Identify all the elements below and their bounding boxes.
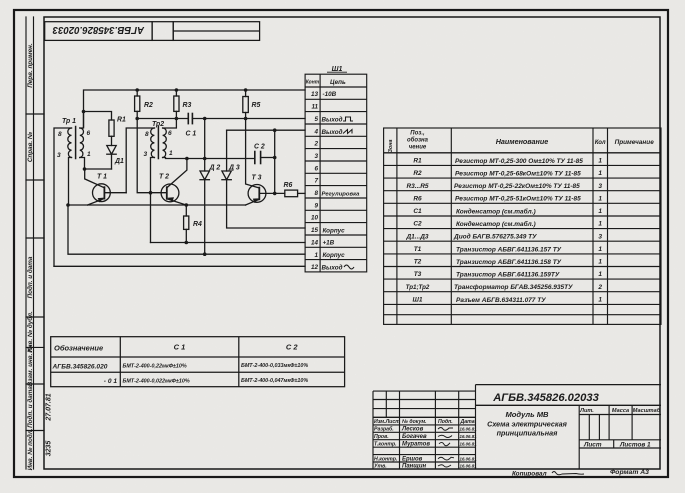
node junction R2 bottom / pin5 rail xyxy=(135,117,139,121)
wire: R4 bottom lead xyxy=(185,229,187,242)
connector Sh1 table xyxy=(305,74,367,272)
parts list table xyxy=(384,128,661,324)
wire: R5 top lead xyxy=(245,90,247,97)
resistor R2 xyxy=(135,96,140,111)
wire: Tr1 pin8 to output rail pin 12 xyxy=(54,128,72,266)
resistor R1 xyxy=(109,120,114,136)
node junction R4 bottom xyxy=(185,241,189,245)
wire: +1V rail to pin 14 xyxy=(151,242,306,244)
Tr2 core xyxy=(157,127,159,159)
wire: Tr2 pin1 to C2 rail xyxy=(163,158,254,159)
node junction emitter rail left xyxy=(66,203,70,207)
node junction pin4 rail / C2 branch xyxy=(273,128,277,132)
wire: Tr2 pin6 up to R3 bottom xyxy=(163,119,177,129)
wire: Tr1 pin3 down to emitter rail xyxy=(69,158,72,206)
Tr1 primary winding (pins 8-3) xyxy=(68,128,72,157)
wire: D1 cathode down to collector node line xyxy=(111,154,113,169)
sawtooth symbol pin 4 xyxy=(343,130,352,134)
resistor R3 xyxy=(174,96,179,111)
node junction at Tr1 pin6 branch xyxy=(82,110,86,114)
T3 emitter lead with arrow xyxy=(246,200,259,205)
capacitor selection table xyxy=(51,337,345,387)
T2 emitter lead with arrow xyxy=(168,199,187,205)
sine symbol pin 12 xyxy=(344,265,354,269)
capacitor C1 xyxy=(188,114,192,124)
node junction T2 collector xyxy=(185,157,189,161)
left margin box dividers xyxy=(26,113,44,115)
kopiroval signature xyxy=(552,472,584,475)
T1 collector lead xyxy=(85,169,105,188)
diode D1 xyxy=(107,146,116,155)
header Lit xyxy=(579,407,661,449)
diode D2 xyxy=(200,119,209,255)
wire: C2 branch down to T3 base xyxy=(274,130,276,193)
Tr1 secondary winding (pins 6-1) xyxy=(80,128,84,157)
signatures squiggles xyxy=(438,428,454,468)
Tr2 secondary winding (pins 6-1) xyxy=(163,128,167,157)
wire: R6 to connector pin 8 xyxy=(298,192,305,194)
wire: output rail to pin 12 xyxy=(54,265,305,267)
node junction T3 base xyxy=(273,192,277,196)
node junction R2 top xyxy=(135,88,139,92)
wire: Tr1 pin6 up xyxy=(80,112,84,129)
node junction D2 anode rail xyxy=(203,157,207,161)
wire: ground rail to pin 1 xyxy=(68,205,305,254)
Tr2 primary winding (pins 8-3) xyxy=(151,128,155,157)
T1 emitter lead with arrow xyxy=(88,199,104,205)
resistor R5 xyxy=(243,97,249,113)
wire: R3 bottom lead xyxy=(175,111,177,118)
diode D3 xyxy=(222,130,305,228)
transistor T1 xyxy=(85,169,127,205)
T2 collector lead xyxy=(167,159,187,188)
wire: T1 base up to Tr2 pin 8 xyxy=(126,128,154,193)
wire: R2 bottom to T2 base xyxy=(137,111,167,192)
resistor R4 xyxy=(184,216,189,229)
parts table headers xyxy=(388,131,654,153)
wire: -10V top rail to pin 13 xyxy=(84,90,306,127)
node junction C2 / pin4 branch xyxy=(273,156,277,160)
node junction D2 cathode / ground xyxy=(203,252,207,256)
node junction R5 top xyxy=(244,88,248,92)
Tr1 core xyxy=(75,127,77,159)
title block frame xyxy=(373,385,661,469)
resistor R6 xyxy=(285,190,298,197)
wire: pin 5 output rail through C1 xyxy=(137,118,188,120)
wire: pin 4 rail xyxy=(227,129,305,131)
node junction T3 collector rail xyxy=(244,117,248,121)
node junction R3 top xyxy=(175,88,179,92)
capacitor C2 xyxy=(255,152,261,164)
transformer Tr1 xyxy=(57,127,91,160)
wire: R3 top lead xyxy=(175,90,177,96)
T3 base lead xyxy=(259,192,285,194)
wire: C2 right plate to pin4 branch xyxy=(261,157,275,159)
left margin rotated labels xyxy=(26,43,53,470)
wire: R5 bottom to T3 collector xyxy=(246,113,260,189)
wire: Tr2 pin3 down to +1V rail xyxy=(151,158,155,243)
wire: Tr1 pin6 branch to R1 top xyxy=(84,112,112,121)
wire: R4 top lead xyxy=(185,205,187,216)
square wave symbol pin 5 xyxy=(343,117,353,121)
node junction R4 top xyxy=(185,203,189,207)
left margin column lines xyxy=(25,17,27,469)
node junction D2 top xyxy=(203,117,207,121)
top reversed stamp boxes xyxy=(45,22,260,41)
T1 base lead xyxy=(104,192,126,194)
node junction T2 base / Tr2 pin3 xyxy=(149,191,153,195)
transistor T3 xyxy=(246,185,285,206)
wire: R1 bottom to diode D1 xyxy=(111,136,113,145)
wire: R2 top lead xyxy=(136,90,138,96)
wire: Tr1 pin1 down to collector node xyxy=(80,158,85,170)
wire: C1 right to connector pin 5 xyxy=(192,118,305,120)
node junction T1 collector / Tr1 pin1 xyxy=(83,167,87,171)
node junction R3 bottom / Tr2 pin6 xyxy=(175,117,179,121)
transistor T2 xyxy=(161,159,187,206)
wire: common emitter rail xyxy=(68,204,246,206)
transformer Tr2 xyxy=(144,127,174,159)
wire: T1 collector node line xyxy=(85,168,112,170)
